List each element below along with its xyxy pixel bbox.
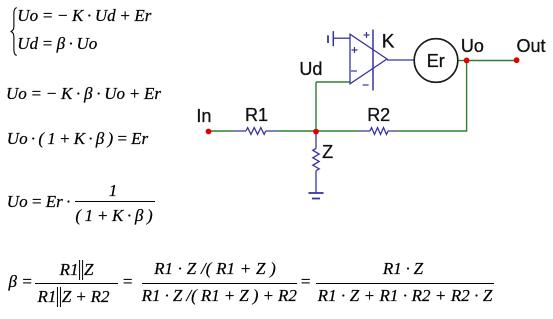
wire Ud horizontal to op-amp xyxy=(316,81,350,83)
fraction3 denominator R1*Z+R1*R2+R2*Z xyxy=(318,287,493,304)
wire In to R1 xyxy=(209,130,235,132)
svg-text:Er: Er xyxy=(427,51,445,71)
fraction denominator (1+K*beta) xyxy=(75,207,152,224)
fraction3 bar xyxy=(316,283,494,284)
fraction1 bar xyxy=(35,283,117,284)
fraction2 bar xyxy=(142,283,297,284)
svg-text:In: In xyxy=(196,106,211,126)
equation beta= xyxy=(9,273,33,290)
svg-text:Ud: Ud xyxy=(299,59,322,79)
resistor R2 xyxy=(358,128,398,135)
ground xyxy=(309,193,324,199)
wire feedback vertical node to Ud xyxy=(315,82,317,131)
source Er xyxy=(414,39,458,83)
svg-text:R1: R1 xyxy=(245,105,268,125)
equation Uo=-K*beta*Uo+Er xyxy=(6,85,161,102)
resistor R1 xyxy=(234,128,277,135)
equals sign 2 xyxy=(122,273,133,290)
equation line Uo=-K*Ud+Er xyxy=(17,7,151,24)
fraction1 denominator R1||Z+R2 xyxy=(37,287,109,307)
wire node to R2 xyxy=(316,130,358,132)
terminal In xyxy=(206,129,212,135)
svg-text:K: K xyxy=(382,32,395,53)
equation line Ud=beta*Uo xyxy=(17,35,97,52)
equation Uo*(1+K*beta)=Er xyxy=(7,130,148,147)
terminal Out xyxy=(514,57,520,63)
wire vertical corner to Uo node xyxy=(466,61,468,132)
fraction1 numerator R1||Z xyxy=(60,260,94,280)
fraction2 denominator R1*Z/(R1+Z)+R2 xyxy=(142,287,297,304)
svg-text:R2: R2 xyxy=(367,105,390,125)
impedance Z xyxy=(313,133,319,193)
wire op-amp output to Er xyxy=(387,59,415,61)
svg-text:Out: Out xyxy=(517,36,546,56)
wire Uo node to Out xyxy=(467,60,517,62)
svg-text:Z: Z xyxy=(322,142,333,162)
battery reference at op-amp + input xyxy=(328,31,350,46)
svg-text:Uo: Uo xyxy=(461,36,484,56)
node Uo xyxy=(464,58,470,64)
wire R2 to corner xyxy=(398,130,468,132)
wire Er to Uo node xyxy=(457,60,467,62)
fraction bar xyxy=(75,201,155,202)
fraction2 numerator R1*Z/(R1+Z) xyxy=(154,260,276,277)
wire R1 to node xyxy=(277,130,316,132)
equation Uo=Er*1/(1+K*beta) main xyxy=(7,193,71,210)
fraction numerator 1 xyxy=(109,182,118,199)
equals sign 3 xyxy=(300,273,311,290)
node junction xyxy=(313,129,319,135)
fraction3 numerator R1*Z xyxy=(383,260,423,277)
op-amp K xyxy=(350,30,387,91)
